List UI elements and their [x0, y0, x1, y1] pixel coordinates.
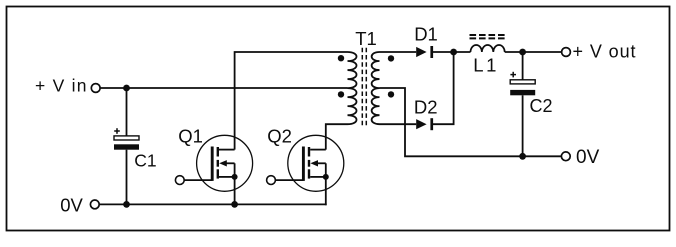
wire secondary center tap down to output 0V — [380, 88, 562, 156]
wire C1 top lead — [126, 88, 128, 136]
wire C2 bottom lead — [522, 95, 524, 156]
node junction C1 bottom — [123, 201, 130, 208]
svg-text:T1: T1 — [355, 28, 377, 49]
node junction C2 on output 0V rail — [519, 153, 526, 160]
svg-text:D2: D2 — [414, 97, 438, 118]
node junction L1/C2 — [519, 49, 526, 56]
svg-text:D1: D1 — [414, 24, 438, 45]
diode D1 — [416, 46, 433, 58]
svg-text:0V: 0V — [576, 147, 600, 168]
wire L1 to +V out — [505, 51, 562, 53]
wire 0V rail — [99, 203, 326, 205]
node +V out terminal — [562, 48, 571, 57]
capacitor C1 — [114, 128, 139, 150]
svg-text:L1: L1 — [473, 54, 499, 75]
wire Q2 drain to transformer bottom — [326, 124, 348, 149]
node junction D1/D2 cathodes — [450, 49, 457, 56]
transformer T1 — [338, 48, 394, 128]
wire C1 bottom lead — [126, 150, 128, 205]
svg-text:+ V out: + V out — [573, 42, 636, 62]
diode D2 — [416, 118, 433, 130]
svg-text:C2: C2 — [530, 96, 553, 116]
svg-text:C1: C1 — [134, 151, 156, 171]
transistor Q1 — [175, 135, 252, 204]
wire secondary top to D1 — [380, 51, 417, 53]
wire D2 cathode up to D1 junction — [433, 52, 454, 124]
svg-text:0V: 0V — [60, 195, 83, 216]
wire Q1 drain to transformer top — [235, 52, 348, 150]
wire +V in rail to transformer center tap — [100, 87, 347, 89]
capacitor C2 — [510, 72, 535, 96]
svg-text:Q1: Q1 — [178, 126, 203, 147]
wire secondary bottom to D2 — [380, 123, 417, 125]
node 0V terminal right — [561, 152, 570, 161]
svg-text:Q2: Q2 — [267, 126, 292, 147]
wire C2 top lead — [522, 52, 524, 80]
node junction Q1 source on 0V rail — [231, 201, 238, 208]
node junction C1 top — [123, 85, 130, 92]
node +V in terminal — [91, 84, 100, 93]
transistor Q2 — [267, 135, 344, 205]
svg-text:+ V in: + V in — [35, 75, 87, 95]
inductor L1 — [470, 35, 507, 52]
node 0V terminal left — [90, 200, 99, 209]
wire D1 cathode to L1 — [433, 51, 471, 53]
